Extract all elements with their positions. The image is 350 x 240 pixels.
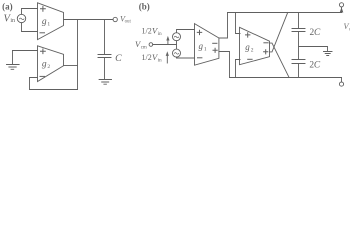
terminal Vcm (b) bbox=[149, 43, 153, 47]
wire bottom rail to g2 - input (b) bbox=[236, 60, 241, 78]
wire top rail to g2 + input (b) bbox=[236, 13, 241, 34]
svg-text:out: out bbox=[125, 20, 132, 25]
svg-text:(a): (a) bbox=[2, 1, 13, 11]
svg-text:1/2: 1/2 bbox=[142, 27, 152, 36]
svg-text:g: g bbox=[42, 59, 47, 69]
wire g2 output to node (a) bbox=[64, 65, 78, 67]
label 1/2 Vin top (b) bbox=[142, 26, 163, 37]
svg-text:C: C bbox=[314, 61, 321, 71]
svg-text:1: 1 bbox=[47, 22, 50, 28]
svg-text:(b): (b) bbox=[139, 1, 150, 11]
wire source bottom to g1 - input bbox=[22, 23, 38, 32]
label Vin (a) bbox=[4, 13, 16, 24]
wire source top to g1 + input bbox=[22, 9, 38, 15]
node junction feedback (a) bbox=[77, 20, 79, 90]
wire g2 - input feedback loop (a) bbox=[30, 78, 78, 90]
svg-text:cm: cm bbox=[141, 46, 147, 51]
label (a) bbox=[2, 1, 13, 11]
terminal Vout top (b) bbox=[339, 3, 343, 13]
capacitor 2C top (b) bbox=[292, 29, 305, 60]
source 1/2Vin bottom (b) bbox=[173, 49, 181, 57]
wire g1 bottom output to bottom rail (b) bbox=[219, 52, 230, 78]
op-amp g1 (a) bbox=[38, 3, 64, 40]
polarity arrow top source (b) bbox=[166, 36, 169, 45]
svg-text:g: g bbox=[245, 42, 250, 52]
label 2C bottom (b) bbox=[309, 61, 321, 71]
label C (a) bbox=[115, 53, 122, 64]
wire top rail to top capacitor (b) bbox=[298, 13, 300, 29]
svg-text:1: 1 bbox=[204, 47, 207, 53]
svg-text:g: g bbox=[42, 17, 47, 27]
svg-text:2: 2 bbox=[47, 64, 50, 70]
ground at g2 + input (a) bbox=[7, 51, 20, 70]
wire ground to g2 + input (a) bbox=[13, 50, 38, 52]
capacitor 2C bottom (b) bbox=[292, 60, 305, 78]
op-amp g2 (b) bbox=[240, 27, 270, 64]
svg-text:g: g bbox=[199, 41, 204, 51]
wire Vcm to sources junction (b) bbox=[153, 44, 177, 46]
label 1/2 Vin bottom (b) bbox=[142, 52, 163, 63]
ground below capacitor (a) bbox=[99, 80, 111, 85]
wire between sources (b) bbox=[176, 41, 178, 49]
wire top source to g1 + input (b) bbox=[177, 30, 195, 33]
source 1/2Vin top (b) bbox=[173, 33, 181, 41]
terminal bottom (b) bbox=[339, 78, 343, 87]
capacitor C (a) bbox=[98, 55, 111, 80]
top rail (b) bbox=[228, 12, 342, 14]
op-amp g1 (b) bbox=[195, 24, 219, 66]
bottom rail (b) bbox=[230, 77, 342, 79]
label 2C top (b) bbox=[310, 28, 322, 38]
label Vout (a) bbox=[120, 15, 131, 25]
op-amp g2 (a) bbox=[38, 46, 64, 82]
wire to capacitor (a) bbox=[104, 20, 106, 55]
label Vout (b) bbox=[344, 22, 350, 32]
terminal Vout (a) bbox=[113, 17, 117, 21]
svg-text:C: C bbox=[314, 28, 321, 38]
svg-text:in: in bbox=[158, 32, 162, 37]
wire g1 output rail (a) bbox=[64, 19, 114, 21]
svg-text:in: in bbox=[10, 18, 15, 24]
ground stub middle node (b) bbox=[299, 47, 333, 56]
crossed output wires g2 to rails (b) bbox=[270, 43, 290, 77]
polarity arrow bottom source (b) bbox=[166, 51, 169, 63]
wire bottom source to g1 - input (b) bbox=[177, 56, 195, 59]
svg-text:1/2: 1/2 bbox=[142, 53, 152, 62]
label Vcm (b) bbox=[135, 39, 147, 50]
svg-text:2: 2 bbox=[251, 48, 254, 54]
source Vin (a) bbox=[17, 14, 25, 22]
svg-text:C: C bbox=[115, 53, 122, 64]
label (b) bbox=[139, 1, 150, 11]
svg-text:in: in bbox=[158, 59, 162, 64]
wire g1 top output to top rail (b) bbox=[219, 13, 228, 39]
